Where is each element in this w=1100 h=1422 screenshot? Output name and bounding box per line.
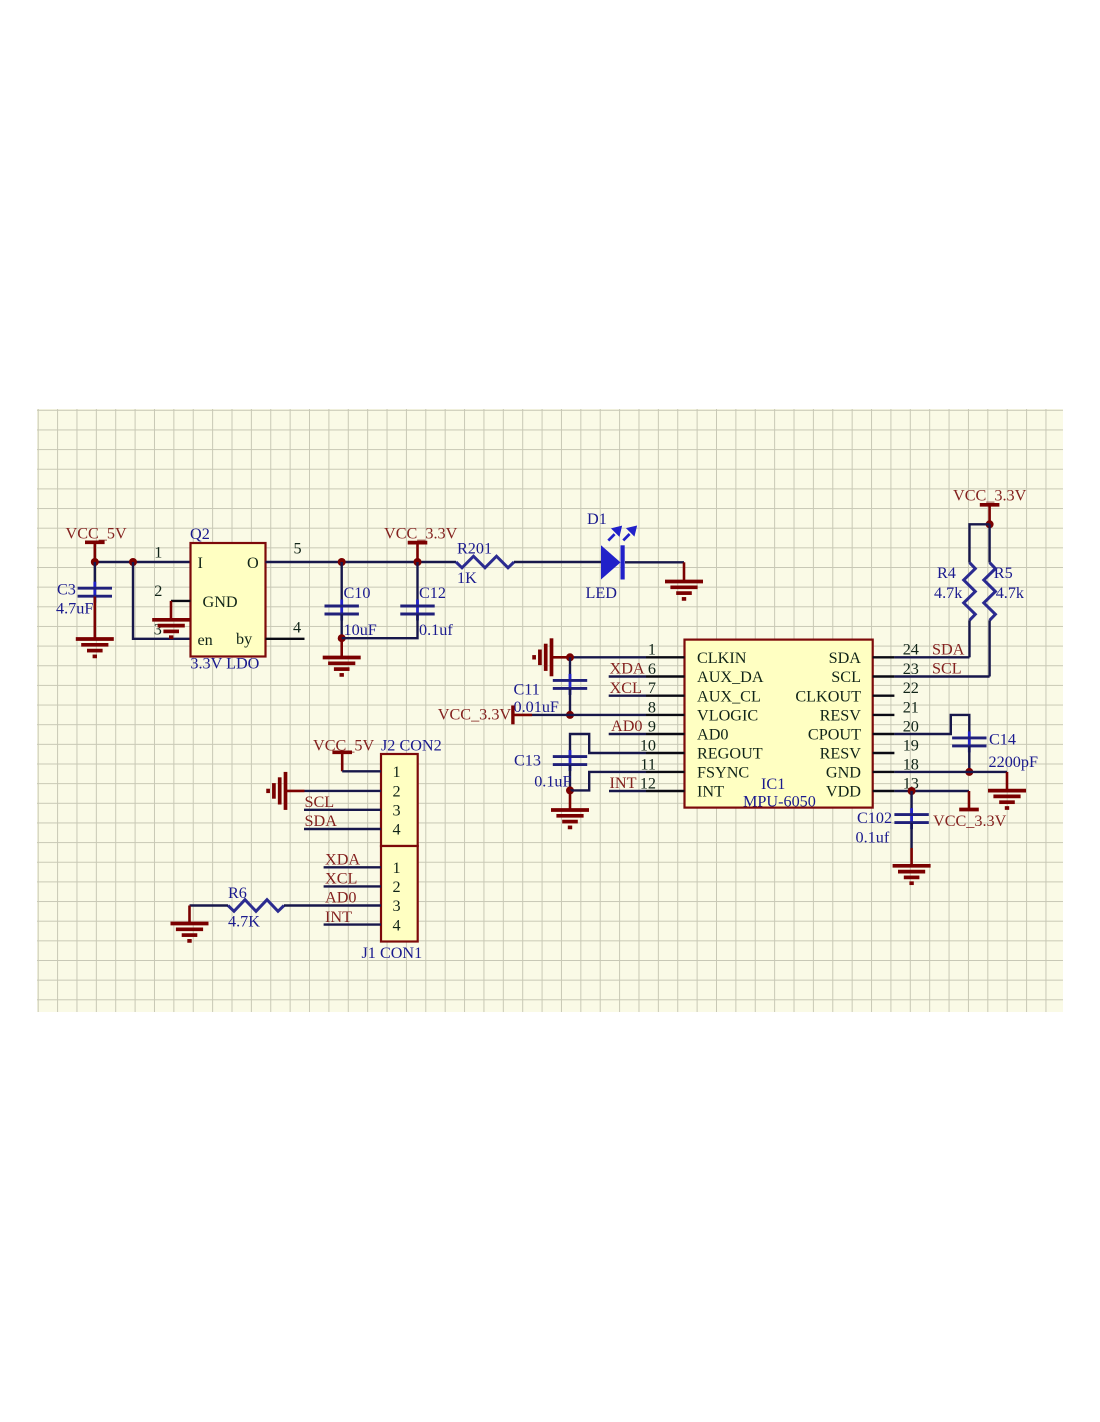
svg-text:XDA: XDA xyxy=(325,851,360,869)
svg-text:GND: GND xyxy=(826,764,861,782)
svg-text:J2 CON2: J2 CON2 xyxy=(381,737,442,755)
junction CLKIN/C11 xyxy=(566,653,574,661)
svg-text:C10: C10 xyxy=(344,584,371,602)
wire R5 bottom to SCL xyxy=(988,620,990,676)
wire C12 top lead xyxy=(416,562,418,606)
wire INT to J1 pin4 xyxy=(324,923,381,925)
svg-text:AD0: AD0 xyxy=(611,717,642,735)
svg-text:SCL: SCL xyxy=(932,660,962,678)
wire Q2 pin5 to R201 xyxy=(266,561,457,563)
svg-text:4.7K: 4.7K xyxy=(228,913,260,931)
IC1 pin stub VLOGIC xyxy=(646,714,685,716)
IC1 pin stub AD0 xyxy=(646,733,685,735)
ground below C3 xyxy=(76,639,114,656)
wire C13 bottom lead xyxy=(569,765,571,790)
IC1 pin stub 24 (right) xyxy=(873,656,895,658)
IC1 pin stub INT xyxy=(646,790,685,792)
svg-text:VDD: VDD xyxy=(826,783,861,801)
svg-text:VCC_3.3V: VCC_3.3V xyxy=(438,705,512,723)
svg-text:6: 6 xyxy=(648,660,656,678)
wire XCL net xyxy=(609,695,646,697)
svg-text:3: 3 xyxy=(393,897,401,915)
wire C10 bottom lead xyxy=(341,614,343,638)
ground below C13 xyxy=(551,810,589,827)
svg-text:VCC_5V: VCC_5V xyxy=(66,525,127,543)
LED D1 symbol xyxy=(601,545,621,579)
IC1 pin stub AUX_DA xyxy=(646,675,685,677)
svg-text:AUX_DA: AUX_DA xyxy=(697,668,764,686)
IC1 pin stub 19 (right) xyxy=(873,752,895,754)
wire C10 top lead xyxy=(341,562,343,606)
svg-text:1: 1 xyxy=(393,859,401,877)
capacitor C14 xyxy=(952,731,986,752)
stem sideways ground (J2 pin2) xyxy=(286,790,305,793)
svg-text:20: 20 xyxy=(903,717,919,735)
svg-text:R4: R4 xyxy=(937,564,956,582)
svg-text:D1: D1 xyxy=(587,510,607,528)
Q2 pin 4 stub xyxy=(266,638,305,640)
svg-text:2: 2 xyxy=(393,783,401,801)
power stem VCC_3.3V above C12 xyxy=(416,543,419,562)
svg-text:FSYNC: FSYNC xyxy=(697,764,749,782)
wire R201 to LED xyxy=(514,561,602,563)
svg-text:0.1uf: 0.1uf xyxy=(419,621,453,639)
svg-text:3: 3 xyxy=(393,802,401,820)
svg-text:4.7k: 4.7k xyxy=(934,584,963,602)
IC1 pin stub 23 (right) xyxy=(873,675,895,677)
svg-text:22: 22 xyxy=(903,679,919,697)
svg-text:GND: GND xyxy=(203,593,238,611)
svg-text:O: O xyxy=(247,554,259,572)
resistor R5 xyxy=(984,563,996,621)
svg-text:12: 12 xyxy=(640,774,656,792)
svg-text:en: en xyxy=(198,631,213,649)
svg-text:I: I xyxy=(198,554,203,572)
svg-text:XDA: XDA xyxy=(610,660,645,678)
svg-text:3: 3 xyxy=(154,621,162,639)
svg-text:C13: C13 xyxy=(514,752,541,770)
svg-text:INT: INT xyxy=(610,774,637,792)
wire XDA to J1 pin1 xyxy=(324,866,381,868)
IC1 pin stub 20 (right) xyxy=(873,733,895,735)
svg-text:21: 21 xyxy=(903,698,919,716)
svg-text:7: 7 xyxy=(648,679,656,697)
IC1 pin stub CLKIN xyxy=(646,656,685,658)
power bar VCC_3.3V (VLOGIC, vertical) xyxy=(511,706,514,725)
svg-text:19: 19 xyxy=(903,736,919,754)
wire C11 bottom lead xyxy=(569,689,571,715)
IC1 pin stub FSYNC xyxy=(646,771,685,773)
capacitor C12 xyxy=(400,600,434,621)
wire SDA to J2 pin4 xyxy=(304,828,381,830)
junction C10 bottom xyxy=(338,634,346,642)
svg-text:10: 10 xyxy=(640,736,656,754)
svg-text:Q2: Q2 xyxy=(190,525,210,543)
wire VDD net xyxy=(894,790,969,792)
svg-text:XCL: XCL xyxy=(325,870,357,888)
ground stem below C102 xyxy=(910,848,913,866)
sideways ground at J2 pin2 xyxy=(268,772,285,810)
svg-text:1: 1 xyxy=(393,763,401,781)
svg-text:18: 18 xyxy=(903,755,919,773)
svg-text:C102: C102 xyxy=(857,809,892,827)
svg-text:0.1uf: 0.1uf xyxy=(856,829,890,847)
svg-text:0.1uF: 0.1uF xyxy=(534,773,571,791)
svg-text:11: 11 xyxy=(640,755,656,773)
svg-text:4: 4 xyxy=(393,821,401,839)
power stem VCC_5V (J2) xyxy=(341,752,344,771)
wire R4 bottom to SDA xyxy=(968,620,970,657)
svg-text:1: 1 xyxy=(154,544,162,562)
svg-text:by: by xyxy=(236,630,253,648)
schematic sheet background xyxy=(37,409,1063,1012)
junction C102 top xyxy=(908,787,916,795)
resistor R4 xyxy=(964,563,976,621)
svg-text:C3: C3 xyxy=(57,581,76,599)
wire to R5 top xyxy=(988,524,990,562)
svg-text:2200pF: 2200pF xyxy=(989,753,1038,771)
connector J2 body xyxy=(381,754,418,846)
svg-text:CLKOUT: CLKOUT xyxy=(795,687,861,705)
power stem VCC_3.3V (VLOGIC) xyxy=(513,714,532,717)
svg-text:REGOUT: REGOUT xyxy=(697,745,763,763)
power bar VCC_3.3V top-right xyxy=(980,503,1000,507)
svg-text:CPOUT: CPOUT xyxy=(808,726,861,744)
svg-text:C11: C11 xyxy=(514,681,540,699)
ground at Q2 pin2 xyxy=(152,620,190,637)
regulator Q2 body xyxy=(191,543,266,657)
power bar VCC_3.3V above C12 xyxy=(408,541,428,545)
wire CLKIN net xyxy=(570,656,646,658)
ground right of LED xyxy=(665,582,703,599)
svg-text:AUX_CL: AUX_CL xyxy=(697,687,761,705)
svg-text:4.7uF: 4.7uF xyxy=(56,600,93,618)
svg-text:RESV: RESV xyxy=(820,745,862,763)
svg-text:4: 4 xyxy=(293,619,301,637)
power bar VCC_5V xyxy=(85,540,105,544)
ground stem below C13 xyxy=(569,790,572,810)
svg-text:VCC_3.3V: VCC_3.3V xyxy=(933,812,1007,830)
resistor R201 xyxy=(456,556,514,568)
wire XDA net xyxy=(609,675,646,677)
junction C12 top xyxy=(414,558,422,566)
wire R6 to J1 pin3 xyxy=(284,904,381,906)
wire GND net pin18 xyxy=(894,771,1007,773)
capacitor C11 xyxy=(553,674,587,695)
wire to ground below C10 xyxy=(340,638,343,657)
svg-text:1: 1 xyxy=(648,641,656,659)
junction C10 top xyxy=(338,558,346,566)
sideways ground at CLKIN xyxy=(534,638,551,676)
ground stem pin18 xyxy=(1006,772,1009,791)
svg-text:5: 5 xyxy=(293,539,301,557)
wire SCL to J2 pin3 xyxy=(304,809,381,811)
wire VCC_5V to Q2 pin1 xyxy=(95,561,191,563)
svg-text:VCC_3.3V: VCC_3.3V xyxy=(384,525,458,543)
stem to sideways ground (CLKIN) xyxy=(552,656,571,659)
svg-text:AD0: AD0 xyxy=(325,889,356,907)
ground below C10 xyxy=(323,658,361,675)
wire J2 pin2 to ground xyxy=(305,790,382,792)
power stem VCC_3.3V (VDD) xyxy=(968,791,971,810)
wire to R4 top xyxy=(970,524,990,562)
wire FSYNC to ground node xyxy=(570,772,646,791)
svg-text:C12: C12 xyxy=(419,584,446,602)
svg-text:VLOGIC: VLOGIC xyxy=(697,707,758,725)
svg-text:SDA: SDA xyxy=(829,649,862,667)
wire SCL net xyxy=(894,675,989,677)
svg-text:MPU-6050: MPU-6050 xyxy=(743,793,816,811)
wire C14 bottom lead xyxy=(968,746,970,772)
wire SDA net xyxy=(894,656,969,658)
IC U1 MPU-6050 body xyxy=(685,640,873,808)
IC1 pin stub AUX_CL xyxy=(646,695,685,697)
capacitor C13 xyxy=(553,750,587,771)
svg-text:IC1: IC1 xyxy=(761,775,785,793)
svg-text:R201: R201 xyxy=(457,540,492,558)
svg-text:XCL: XCL xyxy=(610,679,642,697)
ground left of R6 xyxy=(171,924,209,941)
capacitor C102 xyxy=(894,808,928,829)
svg-text:3.3V LDO: 3.3V LDO xyxy=(190,655,259,673)
power bar VCC_3.3V (VDD, below) xyxy=(959,808,979,812)
wire REGOUT to C13 xyxy=(570,734,646,757)
wire C12 bottom to C10 ground node xyxy=(342,614,418,638)
svg-text:J1 CON1: J1 CON1 xyxy=(362,944,423,962)
wire pin2 down to ground xyxy=(170,601,173,620)
svg-text:23: 23 xyxy=(903,660,919,678)
wire VLOGIC net xyxy=(532,714,646,716)
svg-text:4: 4 xyxy=(393,916,401,934)
IC1 pin stub REGOUT xyxy=(646,752,685,754)
wire junction to Q2 en pin3 xyxy=(133,562,191,639)
wire LED cathode to ground xyxy=(625,561,684,563)
IC1 pin stub 21 (right) xyxy=(873,714,895,716)
ground below C102 xyxy=(893,866,931,883)
Q2 pin 2 GND stub xyxy=(171,600,191,602)
power stem VCC_5V xyxy=(94,542,97,562)
wire VCC_5V to J2 pin1 xyxy=(342,770,381,772)
svg-text:VCC_3.3V: VCC_3.3V xyxy=(953,487,1027,505)
wire XCL to J1 pin2 xyxy=(324,885,381,887)
wire C3 top lead xyxy=(94,562,96,588)
svg-text:1K: 1K xyxy=(457,569,477,587)
svg-text:SDA: SDA xyxy=(305,812,338,830)
svg-text:C14: C14 xyxy=(989,731,1016,749)
power bar VCC_5V (J2) xyxy=(332,750,352,754)
power stem VCC_3.3V top-right xyxy=(988,505,991,525)
junction C13 bottom xyxy=(566,786,574,794)
junction C14/GND net xyxy=(965,768,973,776)
svg-text:2: 2 xyxy=(393,878,401,896)
ground stem right of LED xyxy=(683,562,686,581)
svg-text:4.7k: 4.7k xyxy=(996,584,1025,602)
svg-text:0.01uF: 0.01uF xyxy=(514,698,559,716)
junction C11/VLOGIC xyxy=(566,711,574,719)
wire C102 bottom lead xyxy=(910,823,912,848)
svg-text:SCL: SCL xyxy=(305,793,335,811)
svg-text:SDA: SDA xyxy=(932,640,965,658)
svg-text:R5: R5 xyxy=(994,564,1013,582)
wire C3 bottom lead to ground xyxy=(94,597,97,639)
wire CPOUT to C14 xyxy=(894,715,969,738)
wire INT net xyxy=(609,790,646,792)
wire C102 top lead xyxy=(910,791,912,815)
junction R4/R5 top xyxy=(986,520,994,528)
wire ground to R6 xyxy=(190,904,229,906)
svg-text:10uF: 10uF xyxy=(344,621,377,639)
svg-text:2: 2 xyxy=(154,582,162,600)
IC1 pin stub 22 (right) xyxy=(873,695,895,697)
svg-text:24: 24 xyxy=(903,641,919,659)
connector J1 body xyxy=(381,846,418,942)
svg-text:CLKIN: CLKIN xyxy=(697,649,747,667)
wire C11 top lead xyxy=(569,657,571,680)
IC1 pin stub 13 (right) xyxy=(873,790,895,792)
svg-text:INT: INT xyxy=(325,908,352,926)
svg-text:SCL: SCL xyxy=(831,668,861,686)
capacitor C3 xyxy=(78,582,112,603)
ground at pin18 net xyxy=(988,791,1026,808)
svg-text:RESV: RESV xyxy=(820,707,862,725)
capacitor C10 xyxy=(325,600,359,621)
LED arrows xyxy=(608,527,635,540)
svg-text:LED: LED xyxy=(586,584,618,602)
svg-text:8: 8 xyxy=(648,698,656,716)
IC1 pin stub 18 (right) xyxy=(873,771,895,773)
wire AD0 net xyxy=(609,733,646,735)
junction at C3 top xyxy=(91,558,99,566)
resistor R6 xyxy=(228,900,284,912)
svg-text:INT: INT xyxy=(697,783,724,801)
svg-text:9: 9 xyxy=(648,717,656,735)
junction at en branch xyxy=(129,558,137,566)
svg-text:AD0: AD0 xyxy=(697,726,728,744)
ground stem left of R6 xyxy=(188,906,191,924)
